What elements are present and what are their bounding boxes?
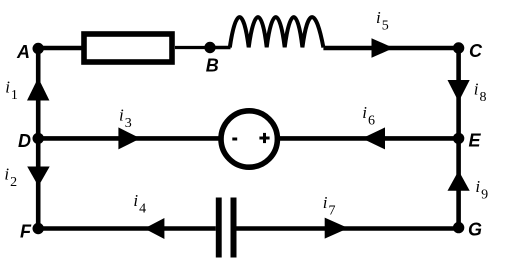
- svg-text:D: D: [18, 131, 31, 151]
- voltage source VS circle: [221, 111, 277, 167]
- wire voltage source to E: [278, 136, 459, 141]
- arrow i8 (down): [448, 80, 470, 102]
- svg-text:E: E: [469, 131, 482, 151]
- wire C to E (right rail upper): [456, 48, 461, 138]
- svg-text:i1: i1: [5, 77, 18, 103]
- wire capacitor to F: [38, 226, 216, 231]
- svg-text:B: B: [206, 56, 219, 76]
- resistor R (between A and B): [84, 34, 172, 62]
- capacitor C1 right plate: [231, 198, 237, 258]
- inductor L (between B and C): [230, 17, 324, 47]
- node C: [453, 42, 464, 53]
- svg-text:i3: i3: [119, 105, 132, 130]
- arrow i5 (right): [372, 38, 394, 58]
- wire B to inductor: [210, 46, 231, 49]
- svg-text:F: F: [20, 222, 32, 242]
- voltage source plus sign: [259, 137, 269, 140]
- wire A to resistor: [38, 46, 84, 51]
- wire E to G (right rail lower): [456, 138, 461, 227]
- node D: [33, 133, 44, 144]
- svg-text:i2: i2: [4, 165, 17, 191]
- arrow i1 (up): [27, 78, 49, 101]
- wire resistor to node B: [175, 46, 210, 49]
- wire G to capacitor: [237, 226, 459, 231]
- svg-text:A: A: [16, 42, 30, 62]
- arrow i4 (left): [144, 218, 164, 239]
- node G: [453, 222, 464, 233]
- arrow i3 (right): [118, 127, 140, 149]
- arrow i2 (down): [27, 167, 50, 187]
- voltage source minus sign: [232, 138, 237, 141]
- arrow i6 (left): [362, 127, 385, 149]
- arrow i7 (right): [325, 218, 349, 239]
- node E: [453, 133, 464, 144]
- capacitor C1 left plate: [216, 198, 222, 258]
- wire D to A (left rail upper): [36, 48, 41, 138]
- node A: [33, 43, 44, 54]
- wire inductor to C: [323, 46, 458, 51]
- svg-text:i5: i5: [376, 8, 389, 34]
- arrow i9 (up): [448, 171, 470, 191]
- svg-text:i6: i6: [362, 103, 375, 129]
- node F: [33, 223, 44, 234]
- node B: [204, 42, 215, 53]
- wire F to D (left rail lower): [36, 138, 41, 228]
- svg-text:i8: i8: [474, 80, 487, 106]
- svg-text:G: G: [468, 220, 482, 240]
- svg-text:i9: i9: [475, 177, 488, 203]
- svg-text:i7: i7: [323, 193, 336, 219]
- wire D to voltage source: [38, 136, 220, 141]
- svg-text:C: C: [469, 41, 483, 61]
- svg-text:i4: i4: [133, 191, 146, 217]
